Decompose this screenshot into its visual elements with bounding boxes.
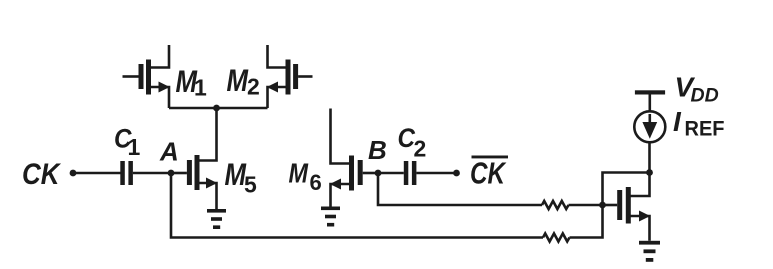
svg-text:2: 2: [247, 74, 260, 100]
label CKbar (with overline): [470, 156, 508, 191]
transistor M7 (diode-connected): [603, 173, 651, 241]
svg-text:REF: REF: [685, 117, 725, 141]
svg-text:A: A: [159, 137, 179, 167]
svg-text:2: 2: [414, 136, 427, 162]
current source IREF: [634, 111, 665, 142]
transistor M2: [267, 45, 313, 108]
wire C1 to node A: [133, 172, 171, 175]
label B: [368, 135, 387, 165]
svg-text:1: 1: [128, 134, 141, 160]
label M2: [227, 62, 260, 100]
wire drain node up to current source: [648, 143, 651, 173]
node at M7 gate (resistor junction): [599, 202, 606, 209]
wire gate node up to drain node (diode connection): [603, 173, 650, 206]
label A: [159, 137, 179, 167]
capacitor C2: [404, 161, 417, 185]
junction M1/M2 sources: [213, 105, 220, 112]
terminal CKbar: [453, 170, 460, 177]
label IREF: [673, 106, 725, 141]
svg-text:M: M: [289, 158, 309, 189]
wire node B down and right to R1: [378, 173, 542, 205]
wire R1 to gate node: [569, 204, 603, 207]
svg-text:6: 6: [310, 170, 322, 195]
capacitor C1: [120, 161, 133, 185]
ground at M7 source: [639, 241, 660, 262]
transistor M5: [187, 108, 217, 210]
wire current source to VDD: [648, 94, 651, 111]
label C1: [114, 124, 141, 161]
svg-text:B: B: [368, 135, 387, 165]
wire M1 source to M2 source: [169, 107, 268, 110]
label CK (input): [22, 158, 62, 191]
label M6: [289, 158, 322, 196]
wire C2 to CKbar terminal: [416, 172, 456, 175]
svg-text:CK: CK: [22, 158, 62, 191]
svg-text:CK: CK: [470, 157, 507, 191]
transistor M6: [330, 109, 378, 208]
transistor M1: [123, 45, 170, 108]
ground at M5 source: [207, 209, 226, 229]
label M5: [225, 156, 258, 198]
resistor R2: [543, 234, 570, 242]
svg-text:DD: DD: [691, 85, 719, 107]
wire node A to M5 gate: [171, 172, 187, 175]
wire node A down and along bottom to R2: [171, 173, 543, 238]
svg-text:5: 5: [244, 172, 257, 198]
wire R2 up to gate node: [570, 205, 603, 238]
node at M7 drain: [646, 169, 653, 176]
ground at M6 source: [321, 207, 340, 227]
wire CK terminal to C1: [73, 172, 121, 175]
resistor R1: [542, 201, 569, 209]
supply VDD bar: [635, 90, 665, 94]
node B: [375, 170, 382, 177]
svg-text:M: M: [227, 62, 249, 98]
svg-text:1: 1: [194, 75, 207, 101]
wire node B to C2: [378, 172, 404, 175]
node A: [168, 170, 175, 177]
svg-text:I: I: [673, 106, 682, 137]
label VDD: [675, 72, 719, 107]
label C2: [398, 123, 427, 162]
label M1: [176, 63, 208, 101]
terminal CK: [70, 170, 77, 177]
